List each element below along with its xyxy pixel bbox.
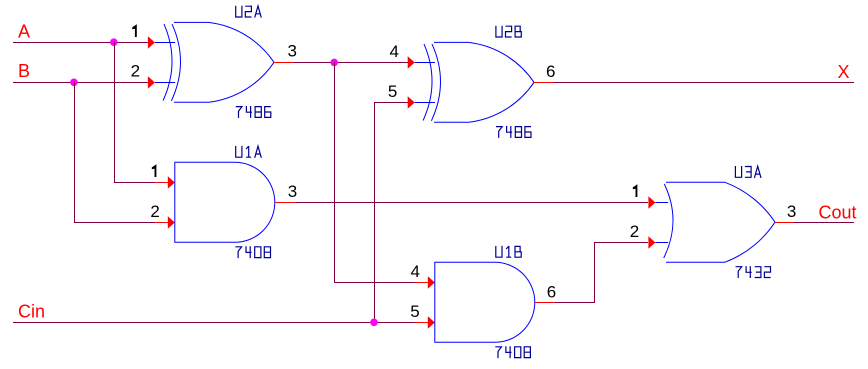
pin stub U2A pin2 (155, 82, 175, 83)
arrow into U2B pin4 (408, 56, 415, 68)
arrow into U1B pin5 (428, 316, 435, 328)
xor gate U2B input arc (423, 44, 432, 120)
arrow into U3A pin2 (648, 236, 655, 248)
junction on A wire (110, 38, 118, 46)
xor gate U2A back arc (171, 24, 180, 101)
U3A reference label (735, 166, 741, 177)
U2A reference label (236, 6, 242, 17)
pin line U1A pin1 (155, 182, 168, 183)
wire U3A.3 to Cout (794, 222, 854, 223)
wire horizontal to U1B pin4 (334, 282, 415, 283)
pin stub U2B pin5 (415, 102, 435, 103)
wire U2B.6 to X (554, 82, 854, 83)
wire U1B.6 to corner (555, 302, 595, 303)
arrow into U2B pin5 (408, 96, 415, 108)
wire vertical Cin junction to U2B pin5 (374, 102, 375, 322)
pin number 1 U1A (152, 164, 157, 177)
svg-text:Cout: Cout (819, 203, 857, 223)
wire Cin horizontal (13, 322, 415, 323)
svg-text:Cin: Cin (18, 302, 45, 322)
arrow into U2A pin2 (148, 76, 155, 88)
svg-text:B: B (18, 61, 30, 81)
wire B vertical to U1A pin2 (74, 82, 75, 223)
pin number 1 U3A (633, 184, 638, 197)
pin stub U3A pin1 (655, 202, 668, 203)
wire into U1A pin1 (114, 182, 155, 183)
svg-text:3: 3 (287, 42, 296, 61)
U1B output pin stub (535, 302, 555, 303)
and gate U1B body (435, 262, 535, 342)
pin line U1B pin5 (415, 322, 428, 323)
svg-text:2: 2 (131, 62, 140, 81)
U2B reference label (496, 26, 502, 37)
junction on B wire (70, 79, 78, 87)
svg-text:6: 6 (547, 282, 556, 301)
U1B reference label (496, 246, 502, 257)
pin stub U2B pin4 (415, 62, 435, 63)
wire vertical to U3A pin2 (594, 242, 595, 303)
wire U2A.3 to U2B.4 (294, 62, 408, 63)
wire horizontal to U2B pin5 (374, 102, 408, 103)
U2B output pin stub (534, 82, 554, 83)
junction on U2A output (330, 59, 338, 67)
svg-text:6: 6 (546, 62, 555, 81)
xor gate U2B back arc (431, 44, 440, 121)
U1A output pin stub (275, 202, 295, 203)
arrow into U2A pin1 (148, 36, 155, 48)
U1A value 7408 (235, 247, 241, 258)
wire A horizontal (13, 42, 148, 43)
wire vertical junction to U1B pin4 (334, 62, 335, 282)
svg-text:A: A (18, 21, 30, 41)
or gate U3A body (666, 182, 775, 262)
wire horizontal to U3A pin2 (594, 242, 648, 243)
svg-text:4: 4 (389, 42, 398, 61)
U3A value 7432 (736, 267, 742, 278)
svg-text:5: 5 (410, 302, 419, 321)
U2A output pin stub (274, 62, 294, 63)
U2A value 7486 (236, 107, 242, 118)
svg-text:3: 3 (787, 202, 796, 221)
pin stub U2A pin1 (155, 42, 175, 43)
wire A vertical to U1A pin1 (114, 42, 115, 182)
or gate U3A back arc (664, 184, 673, 258)
wire U1A.3 to U3A.1 (295, 202, 648, 203)
svg-text:2: 2 (630, 222, 639, 241)
U1B value 7408 (495, 347, 501, 358)
xor gate U2B body (434, 42, 534, 122)
U2B value 7486 (496, 127, 502, 138)
wire into U1A pin2 (74, 222, 155, 223)
pin line U1B pin4 (415, 282, 428, 283)
U3A output pin stub (775, 222, 794, 223)
xor gate U2A input arc (163, 24, 172, 100)
pin line U1A pin2 (155, 222, 168, 223)
svg-text:5: 5 (388, 82, 397, 101)
svg-text:X: X (838, 62, 850, 82)
xor gate U2A body (174, 22, 274, 102)
and gate U1A body (175, 162, 275, 242)
svg-text:3: 3 (288, 182, 297, 201)
pin number 1 U2A (132, 24, 137, 37)
pin stub U3A pin2 (655, 242, 668, 243)
U1A reference label (236, 146, 242, 157)
svg-text:4: 4 (410, 262, 419, 281)
wire B horizontal (13, 82, 148, 83)
arrow into U1B pin4 (428, 276, 435, 288)
arrow into U1A pin2 (168, 216, 175, 228)
junction on Cin wire (370, 319, 378, 327)
svg-text:2: 2 (150, 202, 159, 221)
arrow into U3A pin1 (648, 196, 655, 208)
arrow into U1A pin1 (168, 176, 175, 188)
